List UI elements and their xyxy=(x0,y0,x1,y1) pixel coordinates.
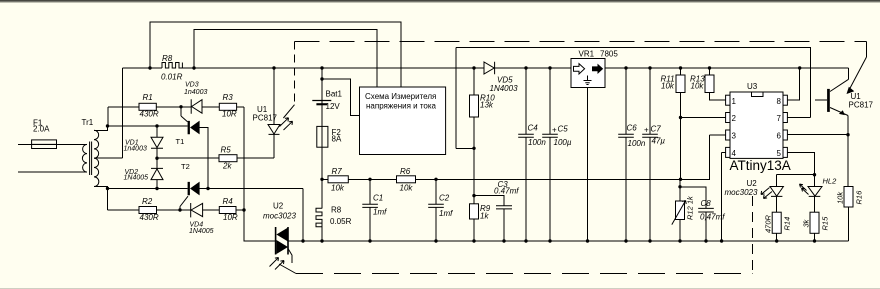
svg-text:Bat1: Bat1 xyxy=(326,89,343,98)
dashed optical link U1 left vertical xyxy=(294,42,296,105)
svg-text:100µ: 100µ xyxy=(554,138,572,147)
svg-text:8A: 8A xyxy=(332,135,342,144)
wire C2 branch xyxy=(435,179,437,241)
optical arrowhead U1 xyxy=(847,88,853,94)
svg-text:1: 1 xyxy=(732,97,737,106)
svg-text:PC817: PC817 xyxy=(849,101,874,110)
regulator VR1 input arrow xyxy=(574,64,585,74)
wire C1 branch xyxy=(369,179,371,241)
regulator VR1 output arrow xyxy=(592,64,603,74)
capacitor C5 plates xyxy=(542,134,558,137)
svg-text:7: 7 xyxy=(777,114,782,123)
wire pin4 to ground xyxy=(722,152,726,241)
svg-text:ATtiny13A: ATtiny13A xyxy=(730,158,791,173)
svg-text:moc3023: moc3023 xyxy=(725,188,758,197)
svg-text:T1: T1 xyxy=(176,137,185,146)
svg-text:8: 8 xyxy=(777,97,782,106)
wire phototransistor collector top xyxy=(848,68,850,79)
opto LED U1 xyxy=(268,125,280,135)
wire C4 branch xyxy=(525,68,527,241)
optical arrow into triac 2 xyxy=(275,261,284,270)
triac U2 right bar xyxy=(287,227,289,255)
wire C3 branch xyxy=(474,196,504,241)
wire pin3 xyxy=(710,134,726,136)
transistor U1 emitter arrowhead xyxy=(839,110,845,115)
IC U3 body xyxy=(730,92,783,158)
wire R12 branch xyxy=(679,179,681,241)
svg-text:R5: R5 xyxy=(221,145,232,154)
wire C8 branch xyxy=(680,187,706,241)
svg-text:C5: C5 xyxy=(558,125,569,134)
svg-text:100n: 100n xyxy=(528,138,546,147)
wire kelvin sense A (top) xyxy=(150,22,401,87)
svg-text:1mf: 1mf xyxy=(439,209,453,218)
transformer Tr1 primary winding xyxy=(82,144,87,172)
wire T1 gate xyxy=(180,107,182,116)
svg-text:VR1: VR1 xyxy=(579,50,595,59)
resistor R16 xyxy=(844,187,853,208)
svg-text:430R: 430R xyxy=(140,109,159,118)
LED U1 emission arrow 2 xyxy=(284,121,293,130)
svg-text:1n4003: 1n4003 xyxy=(124,145,147,152)
wire C6 branch xyxy=(625,68,627,241)
battery Bat1 long plate xyxy=(312,100,331,102)
wire VR1 ground pin xyxy=(587,88,589,242)
IC U3 pin4 box xyxy=(726,147,730,157)
resistor R3 xyxy=(219,103,236,110)
svg-text:1k: 1k xyxy=(480,212,489,221)
wire R5 row y=158.2 xyxy=(157,157,274,159)
svg-text:10R: 10R xyxy=(223,213,238,222)
capacitor C2 plates xyxy=(428,204,444,207)
svg-text:C7: C7 xyxy=(651,125,662,134)
wire pin6 to opto output xyxy=(787,134,848,136)
diode VD2 xyxy=(151,168,163,179)
fuse F1 xyxy=(32,140,57,149)
wire phototransistor emitter to R16 xyxy=(847,116,850,242)
wire AC input line 1 xyxy=(18,143,87,145)
wire emitter diagonal U1 transistor xyxy=(830,108,848,116)
dashed optical link U2 vertical xyxy=(752,196,754,274)
svg-text:C6: C6 xyxy=(627,124,638,133)
IC U3 pin3 box xyxy=(726,130,730,140)
optical arrow into triac 1 xyxy=(270,258,279,267)
resistor R1 xyxy=(139,103,156,110)
wire T1 cathode to T2 x=208 xyxy=(200,128,209,189)
svg-text:12V: 12V xyxy=(326,102,341,111)
svg-text:C4: C4 xyxy=(528,124,539,133)
LED U1 emission arrow 1 xyxy=(280,118,289,127)
wire T2 row y=188.5 xyxy=(108,189,304,242)
resistor R9 xyxy=(470,204,479,219)
svg-text:напряжения и тока: напряжения и тока xyxy=(366,101,437,110)
wire pin2 xyxy=(681,117,726,119)
svg-text:5: 5 xyxy=(777,149,782,158)
svg-text:Схема Измерителя: Схема Измерителя xyxy=(365,92,436,101)
svg-text:3: 3 xyxy=(732,132,737,141)
svg-text:PC817: PC817 xyxy=(253,114,278,123)
svg-text:100n: 100n xyxy=(628,139,646,148)
svg-text:430R: 430R xyxy=(140,213,159,222)
wire R13 branch to pin1 xyxy=(710,68,726,100)
LED HL2 emission arrow 2 xyxy=(802,188,809,195)
IC U3 pin5 box xyxy=(783,147,787,157)
diode VD1 xyxy=(151,137,163,148)
IC U3 pin8 box xyxy=(783,95,787,105)
resistor R15 xyxy=(810,212,819,233)
capacitor C3 plates xyxy=(496,206,512,209)
svg-text:1n4003: 1n4003 xyxy=(184,89,207,96)
diode VD3 xyxy=(191,99,202,113)
dashed optical link U1 right vertical xyxy=(866,42,868,58)
capacitor C1 plates xyxy=(362,204,378,207)
svg-text:R14: R14 xyxy=(783,217,792,231)
svg-text:3k: 3k xyxy=(802,218,811,227)
wire AC input line 2 xyxy=(18,171,87,173)
svg-text:C1: C1 xyxy=(373,194,383,203)
wire ground bus y=241 xyxy=(244,210,849,241)
svg-text:2.0A: 2.0A xyxy=(33,125,50,134)
optical diagonal U2 xyxy=(279,264,296,274)
capacitor C4 plates xyxy=(518,134,534,137)
wire pin5 to LEDs xyxy=(787,152,814,186)
wire F2 to shunt to ground bus xyxy=(321,147,323,241)
svg-text:HL2: HL2 xyxy=(823,177,838,186)
wire secondary bottom jog to T2 row xyxy=(94,187,108,211)
wire U2 triac gate stub xyxy=(291,256,293,264)
svg-text:C8: C8 xyxy=(701,199,712,208)
thyristor T2 xyxy=(188,182,200,196)
svg-text:Tr1: Tr1 xyxy=(82,118,94,127)
wire secondary top jog to T1 row xyxy=(94,126,188,130)
page bottom border xyxy=(0,288,880,289)
LED U2 emission arrow 2 xyxy=(764,192,773,199)
wire U2 LED to R14 xyxy=(776,196,778,241)
svg-text:R15: R15 xyxy=(821,216,830,231)
LED HL2 emission arrow 1 xyxy=(800,184,807,191)
wire pin7 sense line y=47.5 xyxy=(456,48,811,149)
triac U2 lower triangle xyxy=(276,240,288,254)
transistor U1 bar xyxy=(827,89,830,112)
svg-text:R12 1k: R12 1k xyxy=(686,195,695,220)
shunt R8 0.05R comb xyxy=(316,208,322,227)
resistor R2 xyxy=(139,207,157,214)
svg-text:10k: 10k xyxy=(331,184,345,193)
LED U2 right xyxy=(770,187,783,197)
svg-text:1mf: 1mf xyxy=(373,208,387,217)
wire C7 branch xyxy=(649,68,651,241)
wire T1 gate diagonal xyxy=(181,116,188,122)
svg-text:0.01R: 0.01R xyxy=(161,73,183,82)
wire T2 gate diagonal xyxy=(180,196,188,206)
optical diagonal U1 left xyxy=(283,105,294,118)
LED HL2 xyxy=(808,187,822,197)
LED U2 emission arrow 1 xyxy=(761,188,770,195)
svg-text:10k: 10k xyxy=(836,191,845,204)
fuse F2 xyxy=(317,126,328,147)
IC U3 pin2 box xyxy=(726,113,730,123)
svg-text:10k: 10k xyxy=(661,82,675,91)
trimmer R12 arrow xyxy=(672,201,686,225)
wire battery branch to meter box xyxy=(322,68,360,126)
capacitor C8 plates xyxy=(698,208,714,212)
svg-text:U2: U2 xyxy=(747,179,758,188)
resistor R14 xyxy=(772,212,781,233)
svg-text:R8: R8 xyxy=(331,206,342,215)
wire U2 LED feed xyxy=(777,175,815,187)
trimmer R12 xyxy=(676,201,685,220)
svg-text:R4: R4 xyxy=(223,197,234,206)
svg-text:+: + xyxy=(644,126,649,135)
svg-text:4: 4 xyxy=(732,149,737,158)
svg-text:R1: R1 xyxy=(143,93,153,102)
svg-text:R2: R2 xyxy=(142,197,153,206)
thyristor T1 xyxy=(188,121,200,135)
page right border xyxy=(18,22,849,263)
wire pin8 to +5V xyxy=(787,68,799,100)
svg-text:0.47mf: 0.47mf xyxy=(494,187,519,196)
svg-text:10k: 10k xyxy=(691,82,705,91)
svg-text:0,47mf: 0,47mf xyxy=(700,213,725,222)
resistor R4 xyxy=(219,207,236,214)
svg-text:0.05R: 0.05R xyxy=(330,217,352,226)
transformer Tr1 secondary winding xyxy=(94,130,99,186)
svg-text:+: + xyxy=(552,126,557,135)
transformer Tr1 core xyxy=(90,142,92,176)
svg-text:R3: R3 xyxy=(223,93,234,102)
svg-text:7805: 7805 xyxy=(600,50,618,59)
regulator VR1 ground symbol xyxy=(584,76,592,85)
wire T2 gate xyxy=(179,207,181,211)
svg-text:2k: 2k xyxy=(222,162,232,171)
wire center tap vertical x=122.5 xyxy=(94,68,123,158)
dashed optical link U2 bottom xyxy=(296,273,753,275)
svg-text:1N4005: 1N4005 xyxy=(189,228,214,235)
svg-text:47µ: 47µ xyxy=(652,137,666,146)
svg-text:R8: R8 xyxy=(162,54,173,63)
capacitor C7 plates xyxy=(642,134,658,137)
svg-text:R16: R16 xyxy=(855,190,864,205)
svg-text:T2: T2 xyxy=(181,162,190,171)
wire pin7 stub xyxy=(787,117,810,119)
battery Bat1 short plate xyxy=(316,103,327,105)
svg-text:moc3023: moc3023 xyxy=(263,211,296,220)
wire measurement row y=179.3 xyxy=(322,135,710,179)
wire R3 to R4 vertical x=244 xyxy=(243,107,245,241)
resistor R7 xyxy=(328,176,348,183)
resistor R13 xyxy=(705,75,714,93)
wire VD1-VD2 string x=157 xyxy=(156,126,158,189)
wire kelvin sense B (second) xyxy=(194,30,377,88)
triac U2 upper triangle xyxy=(276,228,288,242)
triac U2 left bar xyxy=(275,227,277,255)
shunt R8 0.01R comb xyxy=(162,63,182,69)
diode VD5 xyxy=(484,62,495,74)
resistor R10 xyxy=(470,95,479,117)
wire main +12V/+5V bus y=68 xyxy=(123,67,849,69)
svg-text:470R: 470R xyxy=(764,214,773,233)
resistor R6 xyxy=(397,176,416,183)
svg-text:10k: 10k xyxy=(400,184,414,193)
IC U3 pin7 box xyxy=(783,113,787,123)
IC U3 notch xyxy=(752,92,764,97)
IC U3 pin1 box xyxy=(726,95,730,105)
svg-text:VD3: VD3 xyxy=(185,81,199,88)
wire collector diagonal U1 transistor xyxy=(830,79,849,91)
svg-text:1N4003: 1N4003 xyxy=(490,84,519,93)
wire phototransistor base stub xyxy=(815,99,827,101)
wire R11 branch x=681 xyxy=(680,68,682,179)
resistor R11 xyxy=(676,75,685,93)
dashed optical link U1 top xyxy=(295,41,867,43)
measurement box xyxy=(360,87,446,155)
wire C5 branch xyxy=(549,68,551,241)
svg-text:R7: R7 xyxy=(332,167,343,176)
svg-text:2: 2 xyxy=(732,114,737,123)
wire R10 divider x=474 xyxy=(473,68,475,241)
svg-text:C2: C2 xyxy=(439,194,450,203)
page top border xyxy=(0,0,880,2)
wire R2 row y=210 xyxy=(108,209,245,211)
wire U2 triac gate diagonal xyxy=(288,249,292,256)
wire R1 row y=106.8 xyxy=(108,107,244,126)
diode VD4 xyxy=(191,203,203,217)
resistor R5 xyxy=(219,155,237,162)
svg-text:R6: R6 xyxy=(400,167,411,176)
wire HL2 to R15 xyxy=(814,196,816,241)
svg-text:13k: 13k xyxy=(480,101,494,110)
svg-text:U2: U2 xyxy=(273,202,284,211)
svg-text:U3: U3 xyxy=(747,82,758,91)
capacitor C6 plates xyxy=(618,134,634,137)
svg-text:6: 6 xyxy=(777,132,782,141)
optical arrow into transistor U1 xyxy=(849,57,867,91)
regulator VR1 box xyxy=(571,59,605,88)
IC U3 pin6 box xyxy=(783,130,787,140)
svg-text:10R: 10R xyxy=(222,109,237,118)
svg-text:1N4005: 1N4005 xyxy=(124,175,149,182)
wire opto LED U1 branch x=274 xyxy=(273,68,275,158)
